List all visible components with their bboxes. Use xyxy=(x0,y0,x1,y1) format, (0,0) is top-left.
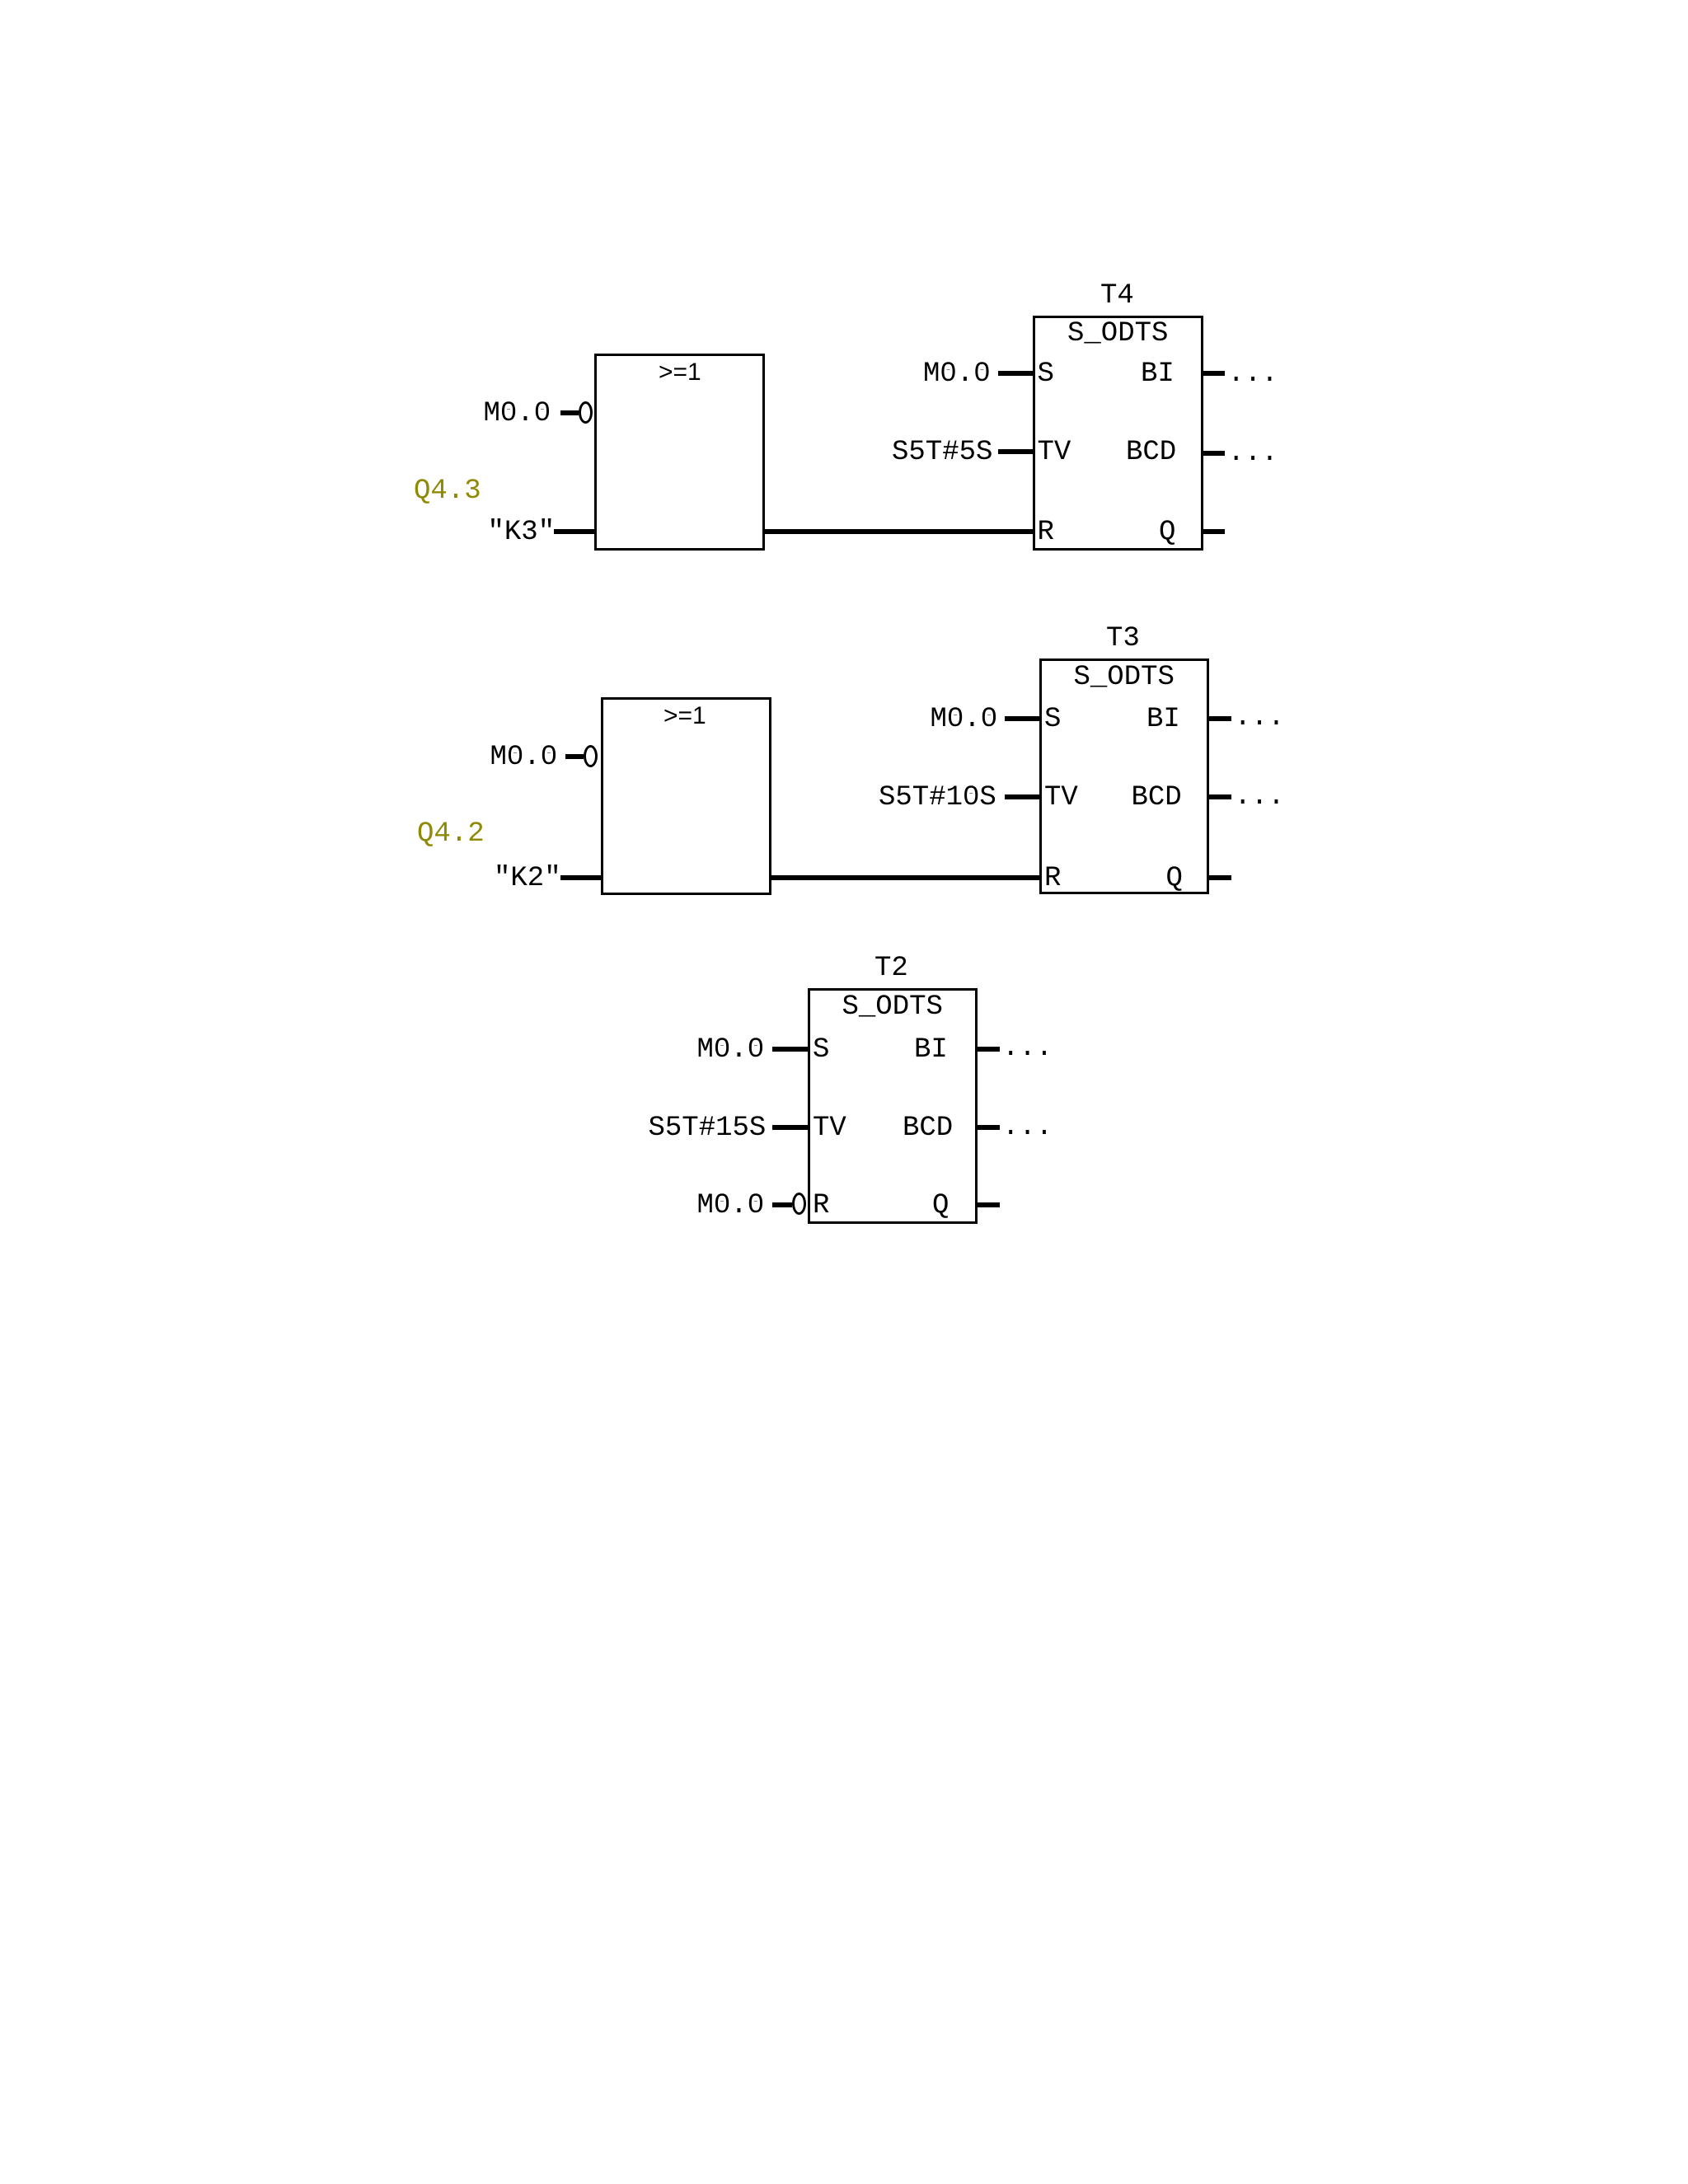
node M0.0 (input to T4 S) xyxy=(923,360,991,388)
node "K3" (symbol name) xyxy=(488,518,556,546)
wire T3 BI output stub xyxy=(1207,716,1231,721)
wire G2 output to timer T3 input R xyxy=(769,875,1042,880)
wire M0.0 to negation circle at T2 R xyxy=(772,1202,792,1207)
pin Q of T2 xyxy=(932,1192,949,1220)
value S5T#5S (time preset for T4) xyxy=(892,438,992,466)
value S5T#15S (time preset for T2) xyxy=(649,1114,767,1142)
node ... at T3 BCD xyxy=(1235,783,1285,811)
wire T4 Q output stub xyxy=(1201,529,1225,534)
label T3 xyxy=(1106,625,1140,653)
pin R of T3 xyxy=(1044,865,1061,893)
pin S of T2 xyxy=(813,1036,829,1064)
pin Q of T4 xyxy=(1159,518,1175,546)
label S_ODTS of T3 xyxy=(1074,663,1175,691)
node Q4.2 (operand address label) xyxy=(417,820,485,848)
pin TV of T2 xyxy=(813,1114,846,1142)
node M0.0 (input to OR gate G2, negated) xyxy=(490,743,558,771)
node ... at T4 BI xyxy=(1228,360,1278,388)
label >=1 of gate G2 xyxy=(663,704,706,729)
pin Q of T3 xyxy=(1166,865,1183,893)
wire S5T#10S to T3 pin TV xyxy=(1005,794,1042,799)
label T2 xyxy=(874,954,908,982)
label >=1 of gate G1 xyxy=(659,360,701,385)
pin BCD of T2 xyxy=(903,1114,953,1142)
negation circle at G2 input xyxy=(584,745,598,767)
label S_ODTS of T2 xyxy=(842,993,943,1021)
negation circle at G1 input xyxy=(579,401,593,424)
wire S5T#5S to T4 pin TV xyxy=(998,449,1035,454)
wire T2 BI output stub xyxy=(975,1047,1000,1052)
pin S of T3 xyxy=(1044,705,1061,733)
wire "K2" to OR gate G2 xyxy=(560,875,601,880)
node ... at T2 BCD xyxy=(1002,1113,1053,1141)
wire "K3" to OR gate G1 xyxy=(554,529,594,534)
label S_ODTS of T4 xyxy=(1067,320,1168,348)
wire M0.0 to T2 pin S xyxy=(772,1047,809,1052)
pin BCD of T4 xyxy=(1126,438,1176,466)
wire M0.0 to negation circle G1 xyxy=(560,410,579,415)
OR gate G2 (>=1), network 2 xyxy=(601,697,771,895)
wire T4 BI output stub xyxy=(1201,371,1225,376)
node M0.0 (input to T2 S) xyxy=(697,1036,765,1064)
wire T2 BCD output stub xyxy=(975,1125,1000,1130)
wire T4 BCD output stub xyxy=(1201,451,1225,456)
wire M0.0 to T3 pin S xyxy=(1005,716,1042,721)
timer U1 box (T4 S_ODTS) xyxy=(1033,316,1203,551)
pin R of T4 xyxy=(1038,518,1054,546)
wire T3 Q output stub xyxy=(1207,875,1231,880)
timer U3 box (T2 S_ODTS) xyxy=(808,988,978,1224)
pin TV of T3 xyxy=(1044,784,1078,812)
node "K2" (symbol name) xyxy=(494,865,561,893)
pin BI of T4 xyxy=(1141,360,1175,388)
pin TV of T4 xyxy=(1038,438,1071,466)
timer U2 box (T3 S_ODTS) xyxy=(1039,658,1209,894)
wire T3 BCD output stub xyxy=(1207,794,1231,799)
label T4 xyxy=(1100,282,1134,310)
pin BCD of T3 xyxy=(1132,784,1182,812)
node ... at T3 BI xyxy=(1235,704,1285,732)
node ... at T4 BCD xyxy=(1228,439,1278,467)
wire S5T#15S to T2 pin TV xyxy=(772,1125,809,1130)
wire G1 output to timer T4 input R xyxy=(762,529,1035,534)
node M0.0 (input to OR gate G1, negated) xyxy=(484,400,551,428)
wire M0.0 to T4 pin S xyxy=(998,371,1035,376)
OR gate G1 (>=1), network 1 xyxy=(594,354,765,551)
pin S of T4 xyxy=(1038,360,1054,388)
node M0.0 (input to T2 R, negated) xyxy=(697,1192,765,1220)
decorative: white covers over zero-glyph center dots (Courier-style plain zeros) xyxy=(506,410,511,415)
node ... at T2 BI xyxy=(1002,1034,1053,1062)
node M0.0 (input to T3 S) xyxy=(931,705,998,733)
pin BI of T3 xyxy=(1146,705,1180,733)
value S5T#10S (time preset for T3) xyxy=(879,784,996,812)
wire M0.0 to negation circle G2 xyxy=(565,754,584,759)
pin BI of T2 xyxy=(914,1036,948,1064)
negation circle at T2 R input xyxy=(792,1193,806,1215)
pin R of T2 xyxy=(813,1192,829,1220)
wire T2 Q output stub xyxy=(975,1202,1000,1207)
node Q4.3 (operand address label) xyxy=(414,477,481,505)
